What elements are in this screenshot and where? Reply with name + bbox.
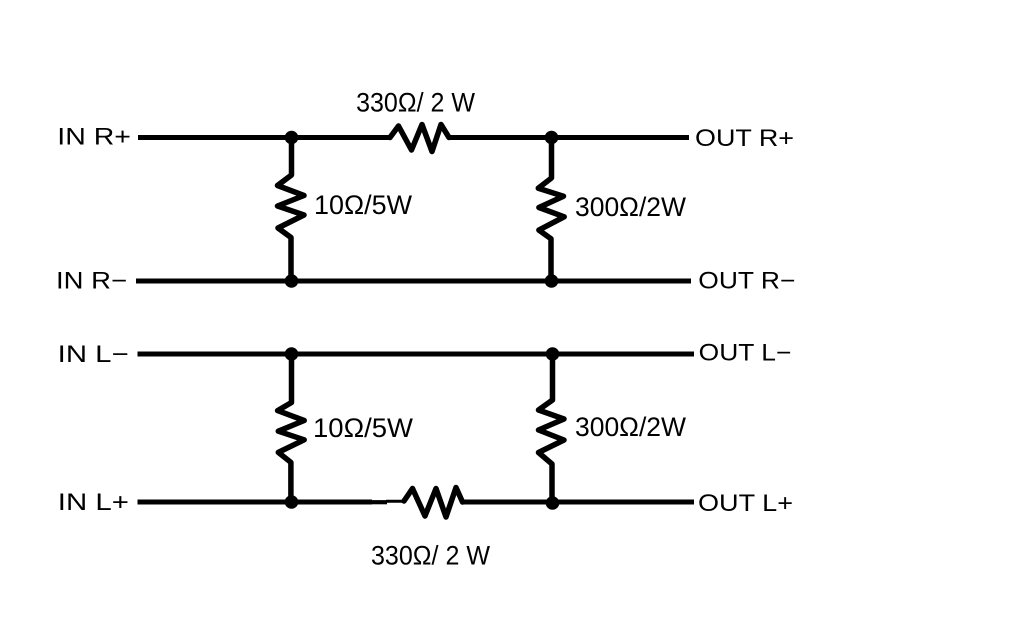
- junction node R+ left: [285, 131, 299, 145]
- shunt resistor 10ohm 5W (right channel): [278, 138, 305, 282]
- shunt resistor 300ohm 2W (right channel): [538, 138, 564, 282]
- left channel top rail wire (IN L- to OUT L-): [138, 352, 695, 357]
- junction node L+ left: [285, 495, 299, 509]
- svg-text:300Ω/2W: 300Ω/2W: [575, 412, 687, 442]
- series resistor 330ohm 2W (left channel): [404, 488, 463, 518]
- junction node R+ right: [545, 131, 559, 145]
- svg-text:300Ω/2W: 300Ω/2W: [575, 192, 687, 222]
- junction node L- left: [285, 347, 299, 361]
- svg-text:IN L−: IN L−: [58, 341, 129, 368]
- wire tapering segment before series resistor (left channel): [371, 500, 387, 504]
- series resistor 330ohm 2W (right channel): [390, 125, 449, 152]
- svg-text:10Ω/5W: 10Ω/5W: [313, 413, 414, 443]
- right channel top rail wire (IN R+ to OUT R+): [138, 135, 390, 140]
- svg-text:330Ω/ 2 W: 330Ω/ 2 W: [371, 541, 490, 571]
- junction node L- right: [546, 347, 560, 361]
- shunt resistor 300ohm 2W (left channel): [539, 354, 565, 503]
- junction node L+ right: [546, 496, 560, 510]
- right channel bottom rail wire (IN R- to OUT R-): [136, 279, 691, 284]
- junction node R- right: [545, 274, 559, 288]
- svg-text:10Ω/5W: 10Ω/5W: [314, 190, 413, 220]
- svg-text:OUT R−: OUT R−: [698, 268, 795, 295]
- svg-text:OUT L+: OUT L+: [698, 490, 793, 517]
- svg-text:OUT R+: OUT R+: [695, 125, 794, 152]
- shunt resistor 10ohm 5W (left channel): [278, 354, 305, 502]
- svg-text:OUT L−: OUT L−: [699, 340, 792, 367]
- left channel bottom rail wire right segment (to OUT L+): [463, 500, 695, 505]
- wire thin patch before series resistor (left channel): [386, 500, 405, 503]
- left channel bottom rail wire left segment (IN L+): [138, 500, 373, 505]
- svg-text:330Ω/ 2 W: 330Ω/ 2 W: [356, 88, 475, 118]
- junction node R- left: [285, 274, 299, 288]
- svg-text:IN L+: IN L+: [58, 489, 129, 516]
- svg-text:IN R−: IN R−: [56, 267, 127, 294]
- svg-text:IN R+: IN R+: [57, 123, 131, 150]
